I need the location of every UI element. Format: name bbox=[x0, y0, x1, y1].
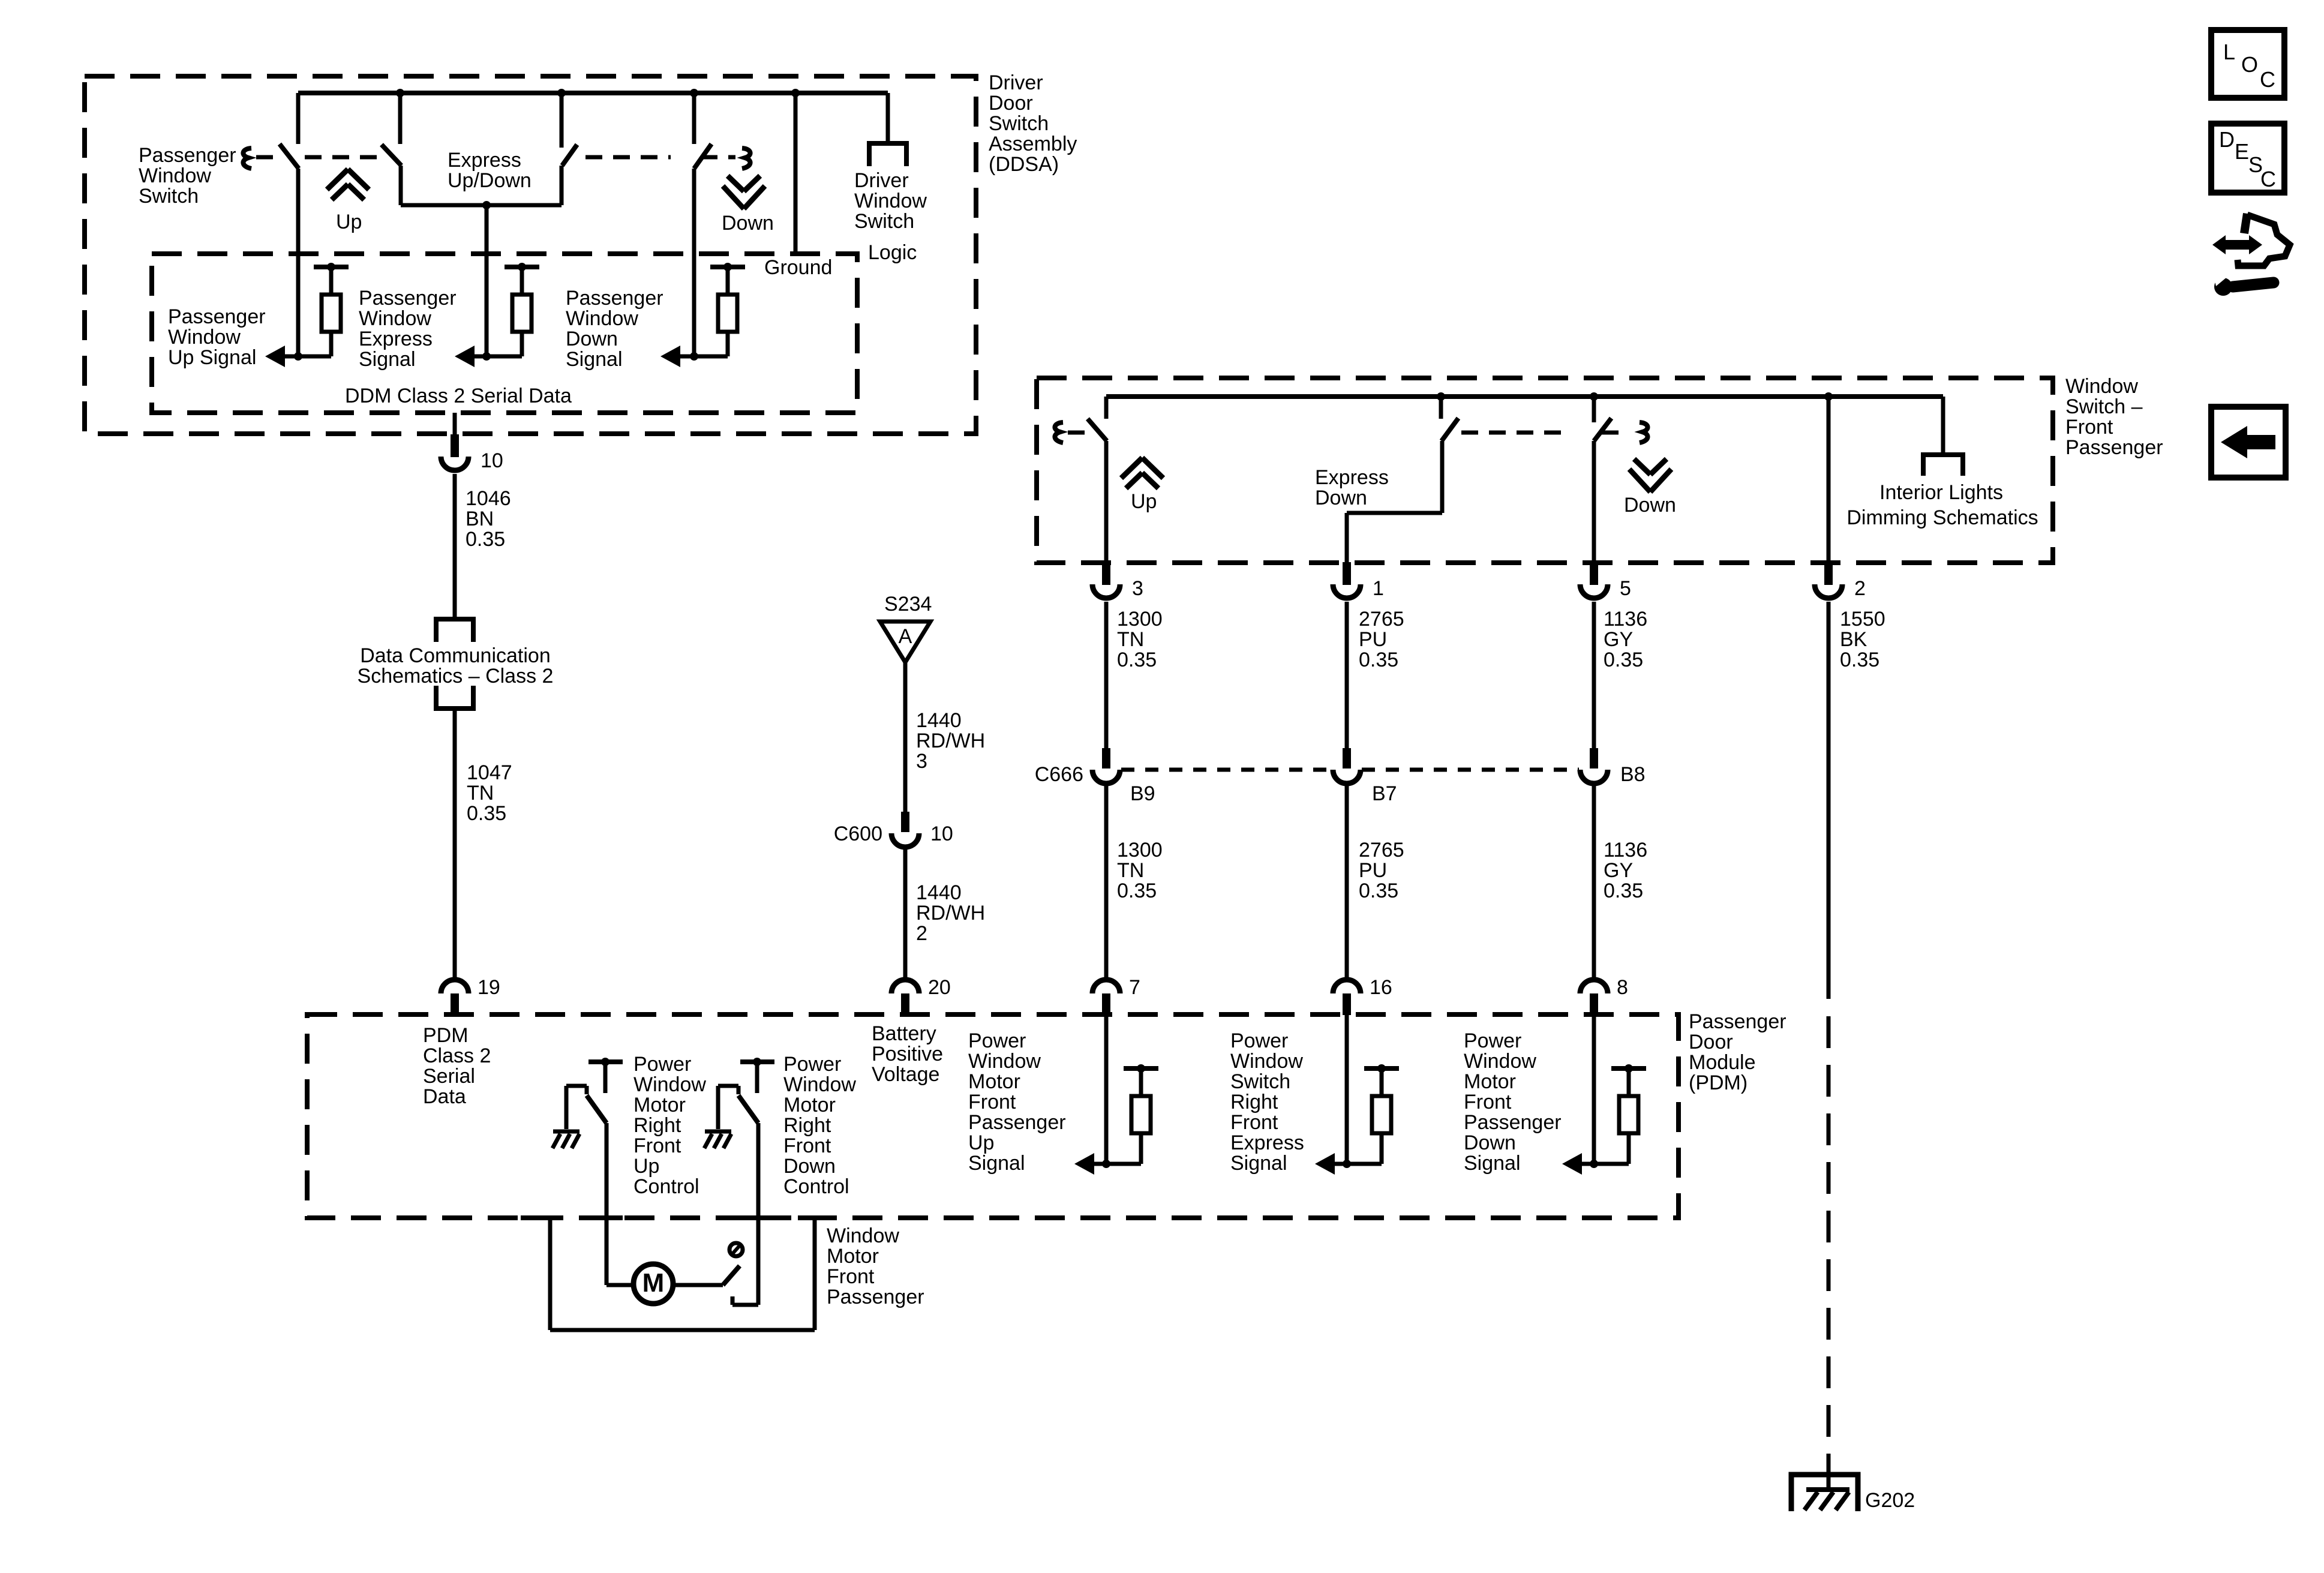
svg-text:2: 2 bbox=[1854, 577, 1866, 600]
arrow: pdm signal pin 7 bbox=[1074, 1153, 1094, 1175]
svg-text:O: O bbox=[2241, 52, 2258, 77]
node junction express bottom bbox=[482, 201, 491, 209]
svg-text:PDM: PDM bbox=[423, 1024, 469, 1047]
svg-text:Window: Window bbox=[168, 326, 241, 349]
wire 1300 TN 0.35 upper bbox=[1104, 602, 1109, 748]
svg-text:7: 7 bbox=[1129, 976, 1140, 999]
svg-text:1046: 1046 bbox=[466, 487, 511, 510]
symbol: down chevron bbox=[723, 186, 744, 209]
svg-text:1440: 1440 bbox=[916, 881, 962, 904]
svg-text:Power: Power bbox=[633, 1053, 691, 1076]
wire: bus to driver window switch logic bbox=[886, 93, 890, 143]
wire segment: PDM bottom edge at down control bbox=[743, 1215, 774, 1220]
svg-text:A: A bbox=[899, 625, 912, 648]
svg-text:1047: 1047 bbox=[467, 761, 512, 784]
svg-text:16: 16 bbox=[1370, 976, 1392, 999]
svg-text:L: L bbox=[2223, 40, 2235, 64]
svg-text:Motor: Motor bbox=[633, 1094, 686, 1116]
ground G202 bbox=[1806, 1487, 1849, 1492]
svg-text:Switch: Switch bbox=[139, 185, 199, 208]
wire: up switch to up signal row bbox=[296, 169, 301, 356]
node junction on bus at ground wire bbox=[791, 89, 800, 97]
node junction pdm pin 7 bbox=[1102, 1160, 1110, 1168]
svg-text:1300: 1300 bbox=[1117, 839, 1163, 861]
svg-text:1440: 1440 bbox=[916, 709, 962, 732]
svg-text:Dimming Schematics: Dimming Schematics bbox=[1846, 506, 2038, 529]
svg-text:Passenger: Passenger bbox=[168, 305, 266, 328]
svg-text:Window: Window bbox=[968, 1050, 1041, 1073]
switch: window up switch bbox=[1104, 397, 1109, 419]
wire: up switch to pin 3 bbox=[1104, 441, 1109, 563]
svg-text:Passenger: Passenger bbox=[1689, 1010, 1786, 1033]
svg-text:Front: Front bbox=[968, 1091, 1016, 1113]
svg-text:2765: 2765 bbox=[1359, 839, 1404, 861]
module box: DDM (inner) bbox=[152, 254, 857, 413]
svg-text:Driver: Driver bbox=[989, 71, 1043, 94]
svg-text:0.35: 0.35 bbox=[467, 802, 506, 825]
wire 1440 RD/WH 2 bbox=[903, 847, 908, 980]
mechanical link dashes express to down switch bbox=[1461, 431, 1572, 435]
svg-text:BN: BN bbox=[466, 508, 494, 530]
svg-text:B7: B7 bbox=[1372, 782, 1397, 805]
switch: express down switch bbox=[1439, 397, 1443, 419]
wire: express switch bottom bar bbox=[401, 203, 562, 208]
connector pin 7 bbox=[1092, 980, 1120, 993]
svg-text:Battery: Battery bbox=[872, 1022, 936, 1045]
node junction on bus at express right bbox=[557, 89, 566, 97]
connector pin 8 bbox=[1580, 980, 1608, 993]
svg-text:TN: TN bbox=[1117, 859, 1144, 882]
wire: down switch to down signal row bbox=[692, 169, 696, 356]
svg-text:Front: Front bbox=[2065, 416, 2113, 439]
wire: express down switch to pin 1 bbox=[1440, 441, 1445, 513]
svg-text:RD/WH: RD/WH bbox=[916, 730, 985, 752]
svg-text:B9: B9 bbox=[1130, 782, 1155, 805]
svg-text:Window: Window bbox=[566, 307, 638, 330]
wire segment: PDM bottom edge at up control bbox=[590, 1215, 623, 1220]
relay blade up control bbox=[587, 1095, 606, 1123]
svg-text:C666: C666 bbox=[1035, 763, 1083, 786]
svg-text:Data Communication: Data Communication bbox=[360, 644, 550, 667]
svg-text:(DDSA): (DDSA) bbox=[989, 153, 1059, 176]
svg-text:3: 3 bbox=[916, 750, 927, 773]
circuit breaker symbol bbox=[729, 1243, 743, 1256]
connector pin 10 bbox=[451, 434, 459, 457]
wire: ground wire from bus to DDM bbox=[794, 93, 798, 254]
connector C600 pin 10 bbox=[901, 812, 909, 832]
svg-text:Front: Front bbox=[783, 1134, 831, 1157]
svg-text:Signal: Signal bbox=[566, 348, 623, 371]
node junction bus at down switch bbox=[1590, 392, 1598, 401]
connector C666 pin B8 bbox=[1590, 748, 1598, 769]
svg-text:Signal: Signal bbox=[359, 348, 416, 371]
svg-text:Down: Down bbox=[1624, 494, 1676, 517]
svg-text:Signal: Signal bbox=[1464, 1152, 1521, 1175]
svg-text:Schematics – Class 2: Schematics – Class 2 bbox=[358, 665, 554, 688]
svg-text:Front: Front bbox=[827, 1265, 875, 1288]
svg-text:S234: S234 bbox=[884, 593, 932, 616]
svg-text:Passenger: Passenger bbox=[827, 1286, 924, 1308]
wire 1136 GY 0.35 upper bbox=[1592, 602, 1596, 748]
svg-text:Window: Window bbox=[139, 164, 211, 187]
svg-text:Down: Down bbox=[722, 212, 774, 235]
mechanical link dashes up switch to express switch bbox=[305, 155, 378, 160]
svg-text:1136: 1136 bbox=[1604, 839, 1647, 861]
svg-text:Positive: Positive bbox=[872, 1043, 943, 1065]
dashed connector line C666 bbox=[1121, 768, 1332, 772]
wire: down switch to pin 5 bbox=[1592, 441, 1596, 563]
node junction express signal bbox=[482, 352, 491, 361]
svg-text:Front: Front bbox=[1230, 1111, 1278, 1134]
svg-text:2765: 2765 bbox=[1359, 608, 1404, 631]
svg-text:0.35: 0.35 bbox=[1359, 649, 1398, 671]
svg-text:0.35: 0.35 bbox=[1604, 649, 1643, 671]
svg-text:Express: Express bbox=[359, 328, 433, 350]
svg-text:Down: Down bbox=[783, 1155, 836, 1178]
svg-text:Passenger: Passenger bbox=[139, 144, 236, 167]
svg-text:10: 10 bbox=[930, 822, 953, 845]
svg-text:Driver: Driver bbox=[854, 169, 909, 192]
wire: pdm pin 16 signal bbox=[1345, 1014, 1349, 1164]
svg-text:Passenger: Passenger bbox=[566, 287, 663, 310]
mechanical link dashes express to down switch bbox=[585, 155, 671, 160]
svg-text:Express: Express bbox=[1230, 1131, 1304, 1154]
svg-text:GY: GY bbox=[1604, 859, 1633, 882]
module box: Passenger Door Module (PDM) bbox=[307, 1014, 1679, 1218]
svg-text:Window: Window bbox=[2065, 375, 2138, 398]
svg-text:Assembly: Assembly bbox=[989, 133, 1077, 155]
svg-text:8: 8 bbox=[1617, 976, 1628, 999]
svg-text:Signal: Signal bbox=[1230, 1152, 1287, 1175]
switch: express up/down right blade bbox=[560, 93, 564, 148]
svg-text:Control: Control bbox=[783, 1175, 849, 1198]
wire 1550 BK 0.35 bbox=[1827, 602, 1831, 999]
connector pin 5 bbox=[1590, 562, 1598, 585]
svg-text:GY: GY bbox=[1604, 628, 1633, 651]
svg-text:5: 5 bbox=[1620, 577, 1631, 600]
svg-text:0.35: 0.35 bbox=[1117, 879, 1157, 902]
svg-text:B8: B8 bbox=[1620, 763, 1646, 786]
svg-text:Motor: Motor bbox=[783, 1094, 836, 1116]
svg-text:Power: Power bbox=[1230, 1029, 1288, 1052]
mechanical link dashes down switch to hook bbox=[1602, 431, 1629, 435]
ground: up control contact bbox=[553, 1130, 580, 1134]
svg-text:PU: PU bbox=[1359, 859, 1387, 882]
connector C666 pin B9 bbox=[1102, 748, 1110, 769]
svg-text:Down: Down bbox=[1315, 487, 1367, 509]
svg-text:Switch –: Switch – bbox=[2065, 395, 2143, 418]
switch: window down switch bbox=[1592, 397, 1596, 422]
svg-text:TN: TN bbox=[1117, 628, 1144, 651]
symbol: interior lights dimming reference bbox=[1923, 455, 1963, 476]
svg-text:Down: Down bbox=[566, 328, 618, 350]
wire: motor loop left bbox=[548, 1218, 553, 1330]
svg-text:Door: Door bbox=[989, 92, 1033, 115]
connector pin 16 bbox=[1333, 980, 1361, 993]
svg-text:E: E bbox=[2235, 139, 2249, 164]
wire: express signal drop bbox=[485, 205, 489, 356]
svg-text:1136: 1136 bbox=[1604, 608, 1647, 631]
svg-text:C: C bbox=[2260, 167, 2276, 191]
svg-text:Right: Right bbox=[1230, 1091, 1278, 1113]
symbol: data communication schematics reference bbox=[436, 619, 473, 642]
svg-text:Passenger: Passenger bbox=[1464, 1111, 1562, 1134]
wire: DDM serial data out bbox=[453, 413, 457, 435]
icon: LOC box bbox=[2211, 30, 2284, 98]
mechanical link dashes hook to up switch bbox=[1068, 431, 1085, 435]
svg-text:0.35: 0.35 bbox=[466, 528, 505, 551]
arrow: pdm signal pin 8 bbox=[1562, 1153, 1582, 1175]
icon: diagnostic arrow wrench bbox=[2212, 235, 2262, 254]
node junction down signal bbox=[690, 352, 698, 361]
connector pin 2 bbox=[1824, 562, 1833, 585]
node junction bus at express down bbox=[1437, 392, 1445, 401]
svg-text:Right: Right bbox=[633, 1114, 681, 1137]
svg-text:Class 2: Class 2 bbox=[423, 1044, 491, 1067]
svg-text:D: D bbox=[2219, 127, 2235, 152]
wire 1047 TN 0.35 bbox=[453, 709, 457, 980]
node junction pdm pin 16 bbox=[1343, 1160, 1351, 1168]
wire: bus to interior lights reference bbox=[1941, 397, 1945, 455]
arrow: passenger window express signal bbox=[455, 346, 475, 367]
svg-text:G202: G202 bbox=[1865, 1489, 1915, 1512]
svg-text:Window: Window bbox=[1464, 1050, 1536, 1073]
icon: DESC box bbox=[2211, 124, 2284, 193]
svg-text:C: C bbox=[2260, 67, 2275, 92]
svg-text:Up: Up bbox=[633, 1155, 659, 1178]
svg-text:Voltage: Voltage bbox=[872, 1063, 939, 1086]
svg-text:Window: Window bbox=[359, 307, 431, 330]
svg-text:Window: Window bbox=[827, 1224, 899, 1247]
symbol: driver window switch logic bbox=[869, 143, 906, 166]
module box: Driver Door Switch Assembly (DDSA) bbox=[85, 76, 976, 434]
svg-text:Passenger: Passenger bbox=[359, 287, 457, 310]
wire: DDSA top bus bbox=[298, 91, 888, 95]
symbol: up chevron bbox=[1121, 458, 1142, 478]
svg-text:TN: TN bbox=[467, 782, 494, 804]
wire: window switch bus bbox=[1106, 394, 1943, 399]
svg-text:Right: Right bbox=[783, 1114, 831, 1137]
svg-text:Power: Power bbox=[1464, 1029, 1521, 1052]
svg-text:20: 20 bbox=[928, 976, 951, 999]
wire: dimming feed to pin 2 bbox=[1827, 397, 1831, 563]
svg-text:Data: Data bbox=[423, 1085, 466, 1108]
switch: passenger window up switch bbox=[296, 93, 301, 144]
wire 1300 TN 0.35 lower bbox=[1104, 784, 1109, 980]
hook: up switch actuator bbox=[1055, 422, 1063, 443]
wire: dashed ground run to G202 bbox=[1827, 1016, 1831, 1457]
module box: Window Switch - Front Passenger bbox=[1037, 378, 2053, 563]
connector pin 20 bbox=[891, 980, 919, 993]
wire 1046 BN 0.35 bbox=[453, 474, 457, 619]
wire 1136 GY 0.35 lower bbox=[1592, 784, 1596, 980]
wire: up control to motor bbox=[605, 1123, 609, 1285]
svg-text:(PDM): (PDM) bbox=[1689, 1071, 1747, 1094]
resistor: pdm pull pin 16 bbox=[1364, 1066, 1399, 1071]
svg-text:Logic: Logic bbox=[868, 241, 917, 264]
svg-text:Module: Module bbox=[1689, 1051, 1756, 1074]
svg-text:Interior Lights: Interior Lights bbox=[1879, 481, 2003, 504]
svg-text:0.35: 0.35 bbox=[1604, 879, 1643, 902]
symbol: up chevron bbox=[327, 169, 348, 190]
svg-text:Window: Window bbox=[783, 1073, 856, 1096]
svg-text:Up/Down: Up/Down bbox=[448, 169, 532, 192]
resistor R2: passenger window express pull bbox=[505, 265, 539, 269]
svg-text:Motor: Motor bbox=[827, 1245, 879, 1268]
svg-text:0.35: 0.35 bbox=[1840, 649, 1879, 671]
svg-text:Front: Front bbox=[633, 1134, 681, 1157]
svg-text:Front: Front bbox=[1464, 1091, 1512, 1113]
svg-text:Express: Express bbox=[1315, 466, 1389, 489]
wire: motor loop right bbox=[813, 1218, 817, 1330]
wire segment: PDM bottom edge at loop left bbox=[521, 1215, 554, 1220]
wire: motor right to circuit breaker bbox=[673, 1283, 723, 1287]
svg-text:Up: Up bbox=[336, 211, 362, 233]
wire 2765 PU 0.35 lower bbox=[1345, 784, 1349, 980]
svg-text:Motor: Motor bbox=[1464, 1070, 1516, 1093]
svg-text:10: 10 bbox=[481, 449, 503, 472]
svg-text:Serial: Serial bbox=[423, 1065, 475, 1088]
svg-text:Up: Up bbox=[968, 1131, 994, 1154]
svg-text:Passenger: Passenger bbox=[2065, 436, 2163, 459]
svg-text:Door: Door bbox=[1689, 1031, 1733, 1053]
svg-text:0.35: 0.35 bbox=[1117, 649, 1157, 671]
svg-text:M: M bbox=[642, 1268, 665, 1298]
circuit breaker blade bbox=[723, 1266, 740, 1285]
svg-text:3: 3 bbox=[1132, 577, 1143, 600]
connector pin 19 bbox=[441, 980, 469, 993]
svg-text:Up Signal: Up Signal bbox=[168, 346, 256, 369]
arrow: passenger window down signal bbox=[660, 346, 680, 367]
connector pin 1 bbox=[1343, 562, 1351, 585]
relay contact: window motor right front down control bbox=[740, 1059, 774, 1064]
svg-text:Switch: Switch bbox=[1230, 1070, 1290, 1093]
svg-text:Power: Power bbox=[783, 1053, 841, 1076]
svg-text:Power: Power bbox=[968, 1029, 1026, 1052]
svg-text:Up: Up bbox=[1131, 490, 1157, 513]
svg-text:Control: Control bbox=[633, 1175, 699, 1198]
svg-text:19: 19 bbox=[478, 976, 500, 999]
resistor R3: passenger window down pull bbox=[710, 265, 745, 269]
svg-text:1550: 1550 bbox=[1840, 608, 1885, 631]
mechanical link dashes hook to up switch bbox=[256, 155, 277, 160]
wire 2765 PU 0.35 upper bbox=[1345, 602, 1349, 748]
node junction on bus at express left bbox=[396, 89, 404, 97]
hook: down switch actuator bbox=[742, 148, 750, 169]
svg-text:1: 1 bbox=[1373, 577, 1384, 600]
relay blade down control bbox=[738, 1095, 758, 1123]
hook: passenger window switch actuator bbox=[243, 148, 251, 169]
wire: pdm pin 8 signal bbox=[1592, 1014, 1596, 1164]
motor M window motor front passenger bbox=[633, 1264, 673, 1304]
svg-text:Window: Window bbox=[633, 1073, 706, 1096]
symbol: down chevron bbox=[1629, 469, 1650, 492]
relay contact: window motor right front up control bbox=[588, 1059, 623, 1064]
svg-text:Window: Window bbox=[1230, 1050, 1303, 1073]
switch: express up/down left blade bbox=[398, 93, 403, 144]
svg-text:Switch: Switch bbox=[989, 112, 1049, 135]
switch: passenger window down switch bbox=[692, 93, 696, 144]
svg-text:C600: C600 bbox=[834, 822, 882, 845]
node junction on bus at down switch bbox=[690, 89, 698, 97]
node junction up signal bbox=[294, 352, 302, 361]
resistor: pdm pull pin 8 bbox=[1611, 1066, 1646, 1071]
svg-text:Switch: Switch bbox=[854, 210, 914, 233]
node junction bus at interior lights bbox=[1824, 392, 1833, 401]
connector C666 pin B7 bbox=[1343, 748, 1351, 769]
hook: down switch actuator bbox=[1640, 422, 1648, 443]
wire segment: PDM bottom edge at loop right bbox=[798, 1215, 831, 1220]
svg-text:DDM Class 2 Serial Data: DDM Class 2 Serial Data bbox=[345, 385, 572, 407]
svg-text:PU: PU bbox=[1359, 628, 1387, 651]
resistor R1: passenger window up pull bbox=[314, 265, 349, 269]
svg-text:Down: Down bbox=[1464, 1131, 1516, 1154]
resistor: pdm pull pin 7 bbox=[1124, 1066, 1158, 1071]
wire: down control to breaker contact bbox=[756, 1123, 761, 1305]
svg-text:Window: Window bbox=[854, 190, 927, 212]
svg-text:0.35: 0.35 bbox=[1359, 879, 1398, 902]
svg-text:1300: 1300 bbox=[1117, 608, 1163, 631]
svg-text:BK: BK bbox=[1840, 628, 1867, 651]
wire: motor loop bottom bbox=[550, 1328, 815, 1332]
icon: back arrow box bbox=[2211, 407, 2286, 478]
ground: down control contact bbox=[705, 1130, 731, 1134]
mechanical link dashes down switch to hook bbox=[701, 155, 735, 160]
connector pin 3 bbox=[1102, 562, 1110, 585]
node junction pdm pin 8 bbox=[1590, 1160, 1598, 1168]
svg-text:RD/WH: RD/WH bbox=[916, 902, 985, 924]
wire 1440 RD/WH 3 bbox=[903, 662, 908, 813]
splice S234 triangle bbox=[880, 622, 930, 662]
svg-text:Express: Express bbox=[448, 149, 521, 172]
svg-text:Passenger: Passenger bbox=[968, 1111, 1066, 1134]
arrow: passenger window up signal bbox=[265, 346, 285, 367]
svg-text:Motor: Motor bbox=[968, 1070, 1020, 1093]
svg-text:2: 2 bbox=[916, 922, 927, 945]
wire: pdm pin 7 signal bbox=[1104, 1014, 1109, 1164]
svg-text:Signal: Signal bbox=[968, 1152, 1025, 1175]
arrow: pdm signal pin 16 bbox=[1315, 1153, 1335, 1175]
svg-text:Ground: Ground bbox=[764, 256, 832, 279]
